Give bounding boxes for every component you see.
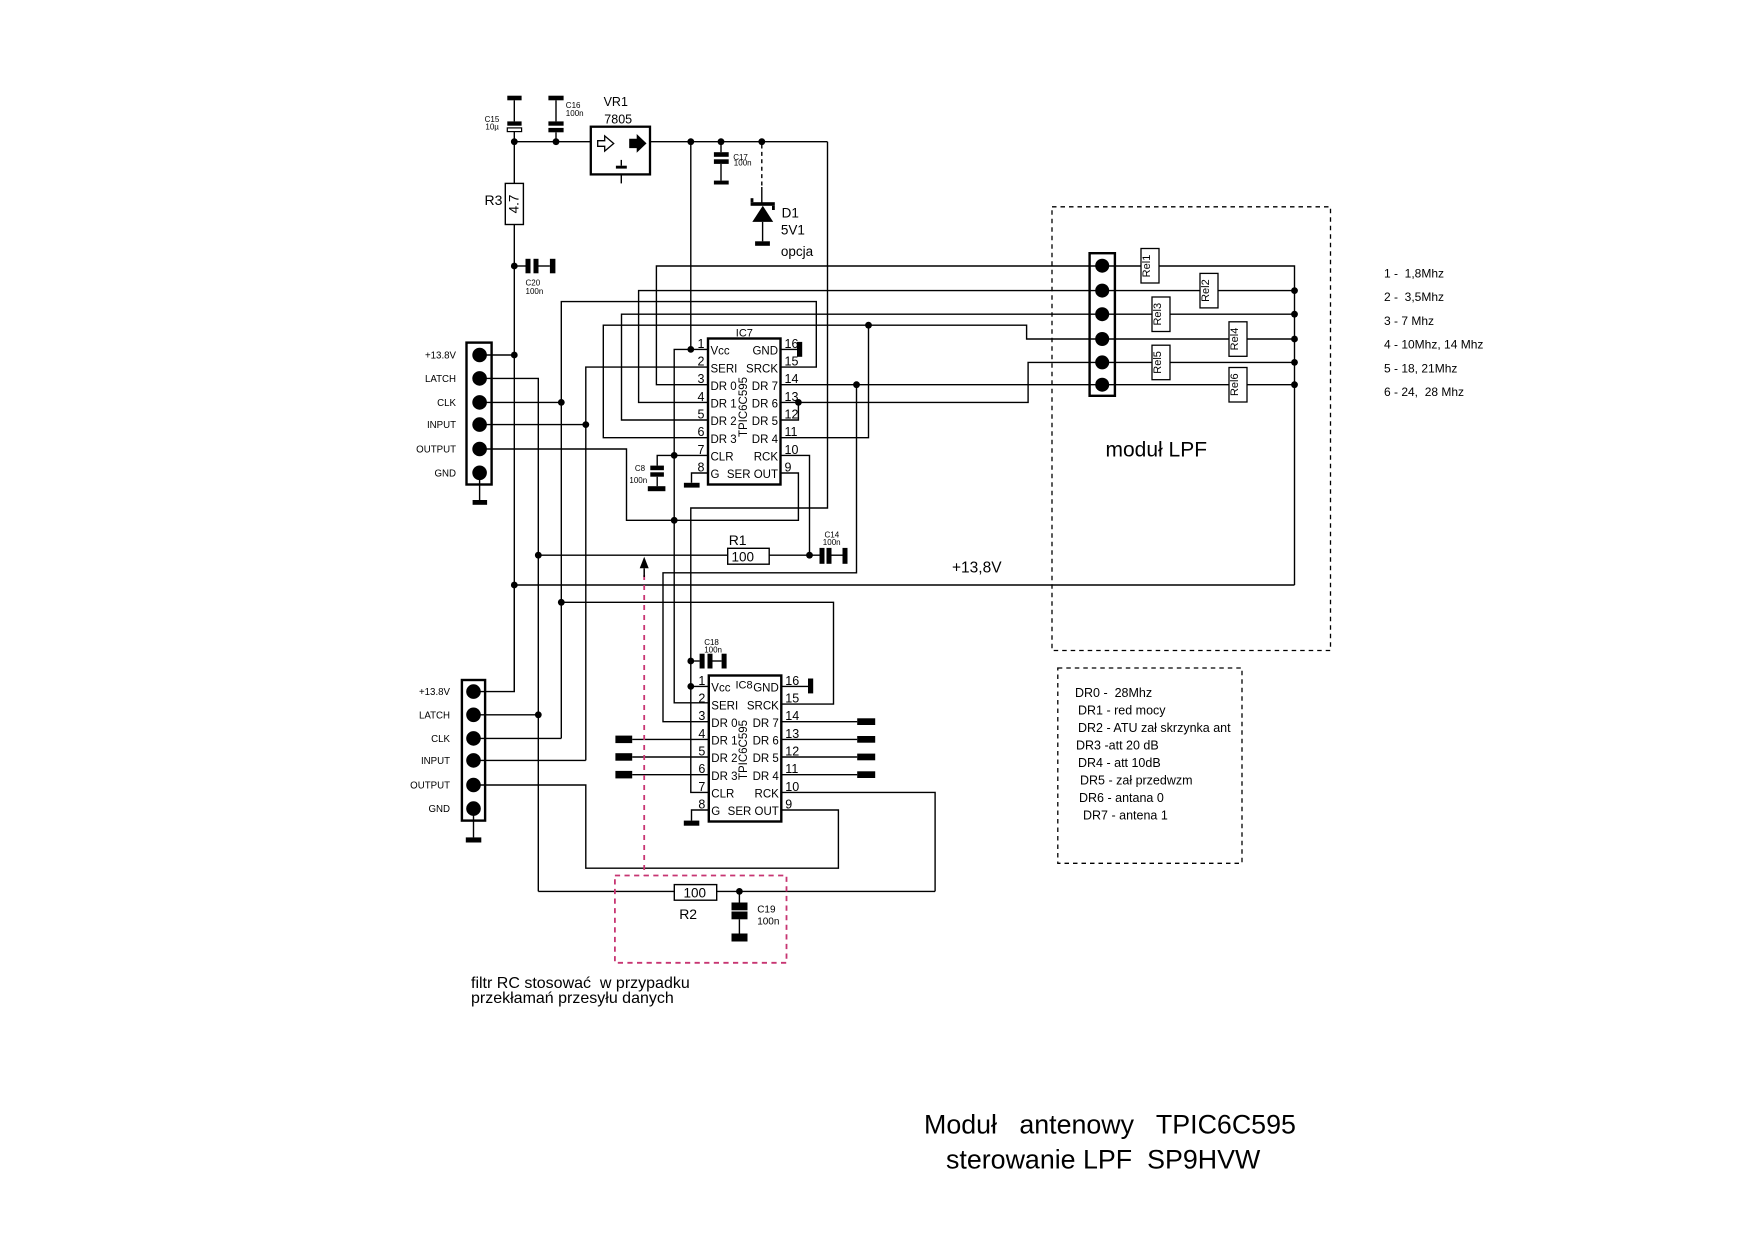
svg-text:4 - 10Mhz, 14 Mhz: 4 - 10Mhz, 14 Mhz (1384, 338, 1483, 352)
resistor R3 4.7 (513, 142, 515, 184)
svg-text:DR7 - antena 1: DR7 - antena 1 (1083, 809, 1168, 823)
svg-text:RCK: RCK (755, 789, 780, 801)
capacitor C14 100n (820, 548, 825, 564)
wire Rel1 row to bus (1102, 266, 1295, 585)
svg-text:GND: GND (752, 346, 778, 358)
svg-text:sterowanie LPF SP9HVW: sterowanie LPF SP9HVW (946, 1145, 1261, 1175)
svg-text:Rel3: Rel3 (1152, 303, 1164, 326)
wire DR5/DR6 net: IC7 pins 12+13 tied, jog to Rel5 row (781, 362, 1103, 402)
wire IC8 DR1 stub to open bar (632, 738, 709, 740)
wire DR0 net: IC7 pin3 up to Rel1 row (656, 266, 1102, 385)
svg-text:DR 2: DR 2 (711, 753, 737, 765)
svg-text:moduł LPF: moduł LPF (1106, 439, 1208, 462)
wire IC8 DR4 stub to open bar (781, 774, 857, 776)
IC U-IC8 TPIC6C595 (709, 676, 782, 822)
svg-text:5V1: 5V1 (781, 223, 805, 238)
svg-text:DR 1: DR 1 (711, 399, 737, 411)
wire IC8 SRCK from CLK riser (561, 602, 833, 704)
capacitor C17 100n (720, 142, 722, 153)
dashed box modul LPF (1052, 207, 1331, 651)
wire IC8 DR7 stub to open bar (781, 721, 857, 723)
svg-text:100: 100 (732, 549, 755, 564)
svg-text:DR0 - 28Mhz: DR0 - 28Mhz (1075, 686, 1152, 700)
svg-text:GND: GND (753, 683, 779, 695)
connector LPF module (6-pin) (1090, 253, 1115, 396)
svg-text:100n: 100n (566, 109, 584, 118)
svg-text:2: 2 (698, 692, 705, 706)
capacitor C16 100n (548, 96, 563, 101)
wire LATCH net: pin to riser down to R1/R2 rows (480, 378, 538, 891)
svg-text:9: 9 (785, 798, 792, 812)
svg-text:DR 6: DR 6 (753, 736, 779, 748)
svg-text:Rel2: Rel2 (1200, 279, 1212, 302)
svg-text:DR 6: DR 6 (752, 399, 778, 411)
svg-text:GND: GND (434, 468, 456, 479)
svg-text:SERI: SERI (711, 700, 738, 712)
svg-text:DR 7: DR 7 (753, 718, 779, 730)
wire Rel2 row to bus (1102, 290, 1295, 292)
svg-text:D1: D1 (782, 205, 799, 220)
ground IC8 G (pin8) (692, 810, 709, 821)
svg-text:Rel5: Rel5 (1152, 351, 1164, 374)
capacitor C20 100n (514, 265, 525, 267)
ground IC8 GND (pin16) (781, 685, 808, 687)
relay coil Rel1 (1141, 249, 1159, 284)
wire CON2 CLK to clk riser (474, 737, 561, 739)
svg-text:C8: C8 (635, 464, 646, 473)
svg-text:IC8: IC8 (736, 680, 753, 692)
svg-text:DR1 - red mocy: DR1 - red mocy (1078, 704, 1166, 718)
pink dashed RC-filter box (615, 876, 787, 963)
svg-text:DR 4: DR 4 (752, 434, 779, 446)
svg-text:SRCK: SRCK (746, 363, 778, 375)
relay coil Rel2 (1200, 273, 1218, 308)
wire DR7 net: IC7 pin14 straight to Rel6 row (781, 384, 1103, 386)
svg-text:Moduł antenowy TPIC6C595: Moduł antenowy TPIC6C595 (924, 1110, 1296, 1140)
wire +5V feed to IC8: riser from VR1 output (691, 142, 828, 687)
svg-text:Rel6: Rel6 (1229, 373, 1241, 396)
svg-text:DR3 -att 20 dB: DR3 -att 20 dB (1076, 739, 1159, 753)
svg-text:Rel4: Rel4 (1229, 328, 1241, 351)
svg-text:3: 3 (698, 709, 705, 723)
capacitor C19 100n (738, 891, 740, 902)
capacitor C15 10u electrolytic (507, 96, 521, 101)
voltage regulator VR1 7805 (591, 127, 650, 175)
wire IC8 DR3 stub to open bar (632, 774, 709, 776)
ground CON1 (479, 473, 481, 500)
svg-text:R3: R3 (485, 192, 503, 208)
svg-text:IC7: IC7 (736, 328, 753, 340)
wire DR1 net: IC7 pin4 up to Rel2 row (639, 291, 1102, 403)
svg-text:DR4 - att 10dB: DR4 - att 10dB (1078, 756, 1161, 770)
svg-text:CLR: CLR (711, 789, 734, 801)
svg-text:R1: R1 (729, 532, 747, 548)
svg-text:+13.8V: +13.8V (419, 687, 451, 698)
svg-text:1 - 1,8Mhz: 1 - 1,8Mhz (1384, 267, 1444, 281)
wire DR2 net: IC7 pin5 up to Rel3 row (622, 314, 1103, 420)
svg-text:5 - 18, 21Mhz: 5 - 18, 21Mhz (1384, 361, 1457, 375)
relay coil Rel4 (1229, 322, 1247, 357)
svg-text:R2: R2 (679, 906, 697, 922)
resistor R2 100 (538, 890, 674, 892)
svg-text:INPUT: INPUT (421, 756, 450, 767)
ground IC7 G (pin8) (692, 473, 709, 483)
wire CLK net: pin to riser (up to IC7 SRCK row, down to CON2 CLK row) (480, 401, 561, 403)
relay coil Rel6 (1229, 368, 1247, 403)
svg-text:+13.8V: +13.8V (425, 351, 457, 362)
IC U-IC7 TPIC6C595 (708, 339, 781, 485)
svg-text:Rel1: Rel1 (1141, 255, 1153, 278)
pink dashed pointer line with arrow (643, 575, 645, 876)
svg-text:CLK: CLK (437, 398, 456, 409)
svg-text:DR2 - ATU zał skrzynka ant: DR2 - ATU zał skrzynka ant (1078, 721, 1231, 735)
wire IC8 RCK to R2 (781, 792, 935, 891)
wire Rel6 row to bus (1102, 384, 1295, 386)
wire IC7 DR7 tap down to IC8 DR0 (663, 385, 857, 722)
svg-text:2: 2 (698, 355, 705, 369)
svg-text:TPIC6C595: TPIC6C595 (738, 377, 750, 437)
svg-text:DR 2: DR 2 (711, 416, 737, 428)
svg-text:DR 5: DR 5 (752, 416, 778, 428)
wire IC8 DR6 stub to open bar (781, 738, 857, 740)
svg-text:4.7: 4.7 (506, 195, 521, 214)
wire Rel3 row to bus (1102, 313, 1295, 315)
junction dots relay supply bus (1291, 287, 1298, 294)
resistor R1 100 (538, 554, 727, 556)
svg-text:przekłamań przesyłu danych: przekłamań przesyłu danych (471, 990, 674, 1007)
dashed box DR signal legend (1058, 668, 1242, 863)
svg-text:3 - 7 Mhz: 3 - 7 Mhz (1384, 314, 1434, 328)
svg-text:DR 3: DR 3 (711, 771, 737, 783)
svg-text:LATCH: LATCH (419, 710, 450, 721)
svg-text:9: 9 (785, 461, 792, 475)
svg-text:SER OUT: SER OUT (727, 469, 778, 481)
wire Rel5 row to bus (1102, 361, 1295, 363)
svg-text:CLR: CLR (711, 452, 734, 464)
wire IC8 DR2 stub to open bar (632, 756, 709, 758)
svg-text:LATCH: LATCH (425, 374, 456, 385)
junction dots on 5V/input rail (511, 138, 518, 145)
svg-text:DR 7: DR 7 (752, 381, 778, 393)
wire IC7 RCK (pin10) down to R1 output node (781, 455, 810, 555)
svg-text:OUTPUT: OUTPUT (410, 781, 450, 792)
wire CON2 INPUT to input riser (474, 759, 586, 761)
svg-text:100n: 100n (526, 287, 544, 296)
ground C17 (714, 181, 729, 185)
VR1 ground pin (620, 160, 622, 166)
svg-text:DR5 - zał przedwzm: DR5 - zał przedwzm (1080, 774, 1193, 788)
svg-text:Vcc: Vcc (711, 346, 730, 358)
capacitor C8 100n on IC7 CLR/Vcc (657, 455, 708, 465)
VR1 input arrow (open) (598, 136, 614, 151)
svg-text:DR 0: DR 0 (711, 718, 737, 730)
zener diode D1 5V1 (opcja) (761, 145, 763, 188)
svg-text:DR 1: DR 1 (711, 736, 737, 748)
wire R3 to C20 node (513, 225, 515, 692)
svg-text:DR6 - antana 0: DR6 - antana 0 (1079, 791, 1164, 805)
svg-text:GND: GND (428, 804, 450, 815)
svg-text:DR 3: DR 3 (711, 434, 737, 446)
wire INPUT net: pin to riser, to IC7 SERI and CON2 INPUT (480, 424, 586, 426)
capacitor C18 100n on IC8 Vcc (691, 660, 700, 662)
svg-text:opcja: opcja (781, 244, 814, 259)
svg-text:100n: 100n (704, 646, 722, 655)
wire VR1 output rail +5V (650, 141, 828, 143)
svg-text:VR1: VR1 (604, 95, 628, 109)
svg-text:SER OUT: SER OUT (728, 806, 779, 818)
svg-text:SERI: SERI (711, 363, 738, 375)
svg-text:C19: C19 (757, 904, 776, 915)
svg-text:2 - 3,5Mhz: 2 - 3,5Mhz (1384, 290, 1444, 304)
VR1 output arrow (solid) (630, 135, 646, 151)
svg-text:INPUT: INPUT (427, 420, 456, 431)
svg-text:Vcc: Vcc (711, 683, 730, 695)
svg-text:DR 5: DR 5 (753, 753, 779, 765)
wire +13,8V rail (long) (514, 584, 1294, 586)
relay coil Rel5 (1152, 345, 1170, 380)
wire CON2 LATCH to latch riser (474, 714, 538, 716)
relay coil Rel3 (1152, 297, 1170, 332)
svg-text:G: G (711, 806, 720, 818)
svg-text:100n: 100n (629, 476, 647, 485)
svg-text:G: G (711, 469, 720, 481)
svg-text:1: 1 (698, 674, 705, 688)
svg-text:+13,8V: +13,8V (952, 560, 1002, 577)
wire Rel4 row to bus (1102, 338, 1295, 340)
svg-text:10µ: 10µ (485, 122, 499, 131)
wire CON2 +13.8V to rail (474, 585, 514, 692)
svg-text:6 - 24, 28 Mhz: 6 - 24, 28 Mhz (1384, 385, 1464, 399)
svg-text:100n: 100n (734, 159, 752, 168)
svg-text:RCK: RCK (754, 452, 779, 464)
wire DR3/DR4 net: IC7 pin6 up, across, jog to Rel4 row; pin11 riser (603, 325, 1102, 438)
wire CON2 OUTPUT to IC8 SER OUT row (474, 785, 838, 868)
wire IC7 Vcc (pin1) from 5V rail (690, 142, 692, 350)
wire input rail to VR1 (514, 141, 591, 143)
svg-text:CLK: CLK (431, 734, 450, 745)
svg-text:100n: 100n (823, 538, 841, 547)
ground CON2 (473, 809, 475, 837)
svg-text:15: 15 (785, 355, 799, 369)
svg-text:7: 7 (698, 780, 705, 794)
ground IC7 GND (pin16) (781, 348, 798, 350)
wire +13.8V pin to rail riser (480, 354, 514, 356)
connector CON1 (6-pin header) (467, 343, 492, 485)
svg-text:100n: 100n (757, 917, 779, 928)
connector CON2 (6-pin header) (462, 680, 485, 821)
wire IC8 Vcc/CLR tie (691, 685, 709, 687)
svg-text:100: 100 (684, 886, 707, 901)
wire OUTPUT net: pin right, down, to SER OUT row (480, 449, 798, 520)
svg-text:SRCK: SRCK (747, 700, 779, 712)
svg-text:DR 0: DR 0 (711, 381, 737, 393)
svg-text:OUTPUT: OUTPUT (416, 445, 456, 456)
svg-text:DR 4: DR 4 (753, 771, 780, 783)
svg-text:7805: 7805 (604, 113, 632, 127)
wire IC8 DR5 stub to open bar (781, 756, 857, 758)
svg-text:TPIC6C595: TPIC6C595 (738, 720, 750, 780)
